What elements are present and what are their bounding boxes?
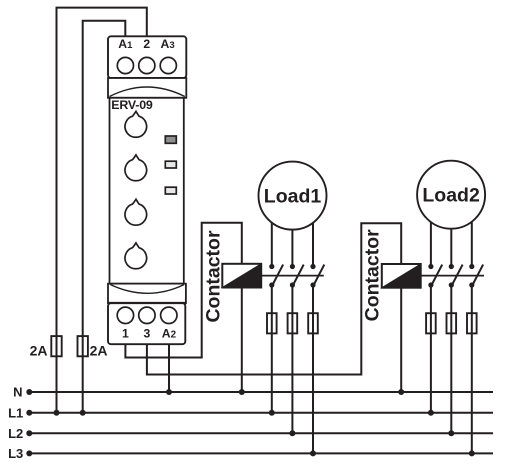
contactor K2 contact pole 2 [449, 264, 463, 288]
wire: terminal A2 to N bus [168, 344, 170, 392]
wire: terminal A1 to fuse F2 to L1 [83, 21, 126, 413]
junction dot K2 coil on N [398, 389, 404, 395]
svg-text:2: 2 [143, 37, 150, 51]
contactor K1 coil [222, 264, 261, 288]
junction dot A2 on N [166, 389, 172, 395]
junction dot L1 start [26, 410, 32, 416]
knob 2 (potentiometer) [125, 155, 147, 181]
svg-text:L1: L1 [8, 405, 23, 420]
junction dot L2 start [26, 430, 32, 436]
contactor K1 contact pole 3 [310, 264, 324, 288]
svg-text:3: 3 [144, 327, 151, 341]
svg-text:2A: 2A [30, 342, 48, 358]
contactor K1 contact pole 1 [269, 264, 283, 288]
bus L3 [29, 452, 493, 454]
knob 4 (potentiometer) [125, 243, 147, 269]
svg-text:Load2: Load2 [422, 185, 480, 207]
svg-text:Load1: Load1 [264, 186, 322, 208]
fuse F7 [447, 313, 457, 333]
wire: terminal 3 to contactor K2 coil to N bus [147, 223, 401, 392]
wire: Load1 phase 2 drop through K1 contact and fuse F4 to L2 [291, 200, 293, 267]
fuse F1 2A [51, 336, 61, 356]
svg-text:Contactor: Contactor [203, 230, 225, 322]
svg-text:N: N [13, 385, 22, 400]
LED indicator 1 [165, 136, 176, 143]
terminal A2 (pin) [161, 307, 177, 323]
bus L2 [29, 432, 493, 434]
relay module U1 ERV-09 outline [108, 36, 186, 344]
fuse F6 [426, 313, 436, 333]
bus N [29, 391, 493, 393]
wire: terminal 2 to fuse F1 to L1 [57, 8, 147, 413]
svg-text:A1: A1 [118, 37, 133, 51]
wire: Load2 phase 3 drop through K2 contact and fuse F8 to L3 [471, 200, 473, 267]
wire: Load2 phase 2 drop through K2 contact and fuse F7 to L2 [450, 200, 452, 267]
fuse F4 [288, 313, 298, 333]
terminal A1 (pin) [117, 57, 133, 73]
load M1 Load1 [259, 162, 327, 230]
contactor K2 actuator bar [421, 275, 484, 277]
junction dot Load1 phase3 on L3 [310, 450, 316, 456]
bus L1 [29, 412, 493, 414]
wire: Load1 phase 1 drop through K1 contact and fuse F3 to L1 [271, 200, 273, 267]
junction dot Load2 phase2 on L2 [448, 430, 454, 436]
LED indicator 3 [165, 187, 176, 194]
junction dot Load1 phase1 on L1 [269, 410, 275, 416]
junction dot fuse F1 on L1 [54, 410, 60, 416]
junction dot L3 start [26, 450, 32, 456]
junction dot Load2 phase3 on L3 [469, 450, 475, 456]
knob 3 (potentiometer) [125, 199, 147, 225]
junction dot N start [26, 389, 32, 395]
terminal 2 (pin) [139, 57, 155, 73]
wire: Load1 phase 3 drop through K1 contact and fuse F5 to L3 [312, 200, 314, 267]
load M2 Load2 [417, 161, 485, 229]
fuse F8 [467, 313, 477, 333]
contactor K2 contact pole 3 [469, 264, 483, 288]
svg-text:Contactor: Contactor [362, 229, 384, 321]
contactor K1 contact pole 2 [290, 264, 304, 288]
svg-text:1: 1 [122, 327, 129, 341]
terminal 3 (pin) [139, 307, 155, 323]
junction dot fuse F2 on L1 [80, 410, 86, 416]
junction dot Load2 phase1 on L1 [428, 410, 434, 416]
junction dot K1 coil on N [239, 389, 245, 395]
svg-text:L3: L3 [8, 446, 23, 461]
wire: Load2 phase 1 drop through K2 contact and fuse F6 to L1 [430, 200, 432, 267]
contactor K2 coil [382, 264, 421, 288]
contactor K1 actuator bar [261, 275, 324, 277]
svg-text:L2: L2 [8, 426, 23, 441]
fuse F3 [267, 313, 277, 333]
LED indicator 2 [165, 161, 176, 168]
fuse F2 2A [78, 336, 88, 356]
junction dot Load1 phase2 on L2 [289, 430, 295, 436]
wire: terminal 1 to contactor K1 coil to N bus [125, 223, 241, 392]
svg-text:A3: A3 [161, 37, 175, 51]
svg-text:A2: A2 [162, 327, 177, 341]
svg-text:ERV-09: ERV-09 [111, 98, 153, 112]
fuse F5 [308, 313, 318, 333]
contactor K2 contact pole 1 [428, 264, 442, 288]
knob 1 (potentiometer) [125, 111, 147, 137]
svg-text:2A: 2A [90, 342, 108, 358]
terminal A3 (pin) [160, 57, 176, 73]
terminal 1 (pin) [117, 307, 133, 323]
